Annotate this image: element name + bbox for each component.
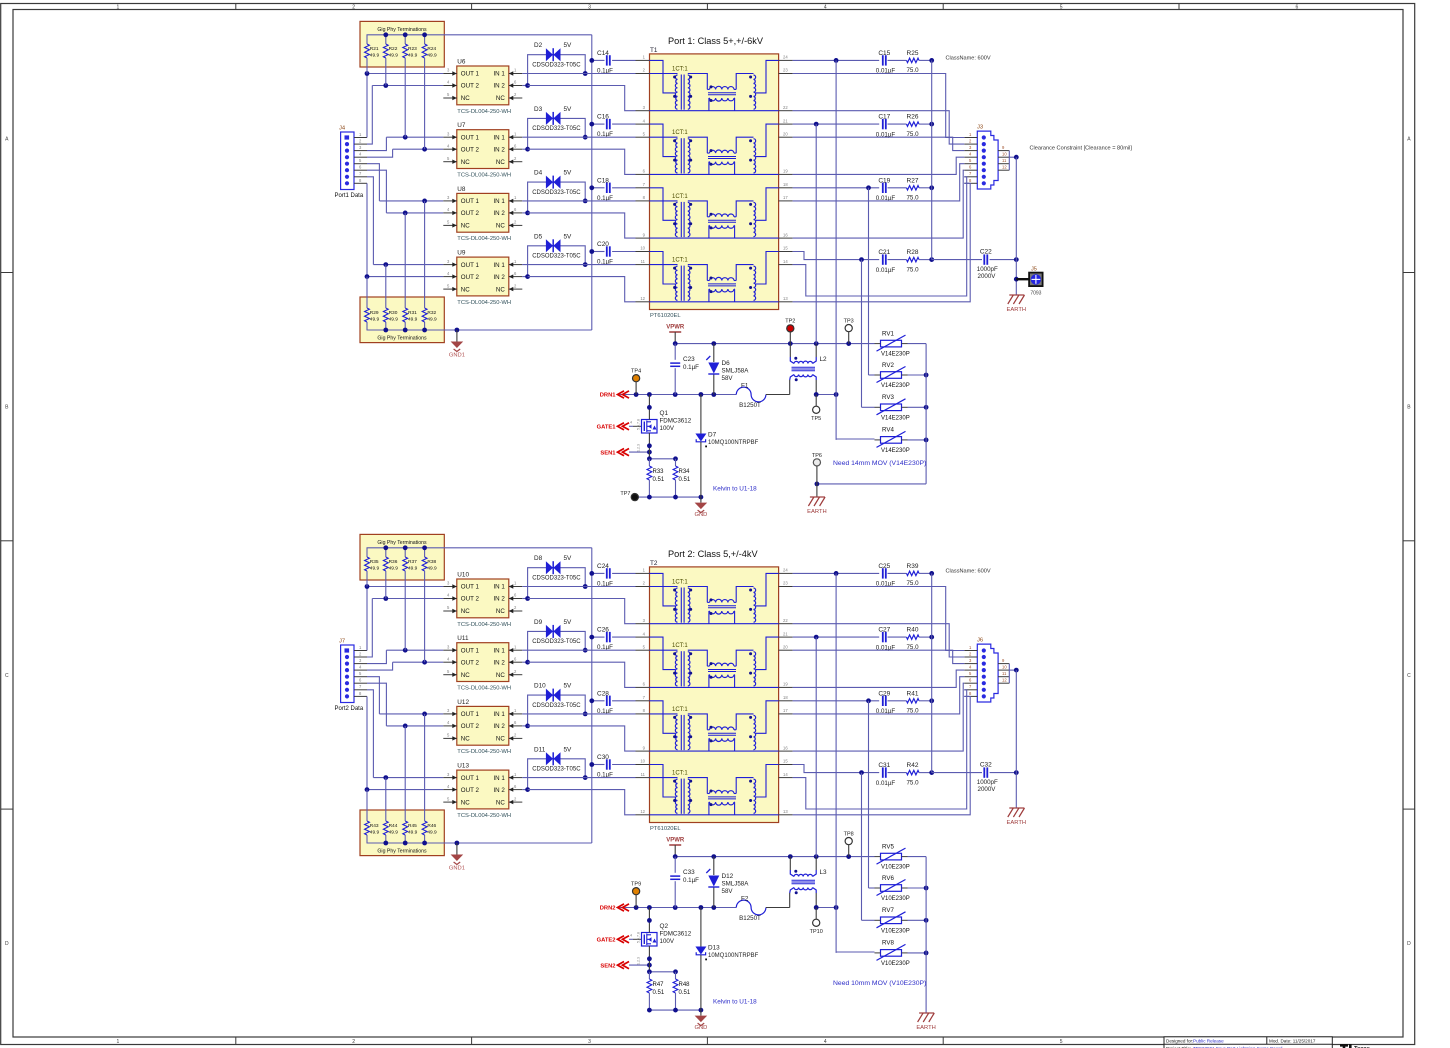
svg-text:C23: C23: [683, 356, 695, 363]
wire: [919, 700, 932, 702]
capacitor C16: [606, 119, 608, 129]
ic U7: [457, 130, 509, 169]
svg-text:TP9: TP9: [631, 881, 641, 887]
svg-text:D7: D7: [708, 432, 717, 439]
svg-text:2: 2: [352, 1039, 355, 1045]
wire: [919, 259, 932, 261]
svg-text:IN 2: IN 2: [493, 596, 505, 603]
wire: [372, 598, 443, 600]
svg-text:EARTH: EARTH: [1007, 820, 1027, 826]
svg-text:0.51: 0.51: [679, 990, 691, 996]
svg-text:ClassName: 600V: ClassName: 600V: [946, 569, 991, 575]
svg-text:Port1 Data: Port1 Data: [335, 193, 364, 199]
wire: [869, 887, 875, 889]
wire: [648, 908, 650, 933]
wire: [816, 907, 836, 909]
wire: [367, 683, 386, 726]
varistor RV1: [881, 340, 902, 347]
wire vertical v4: [861, 260, 863, 408]
svg-text:OUT 2: OUT 2: [461, 146, 480, 153]
wire: [888, 572, 907, 574]
earth: [810, 496, 825, 498]
svg-text:IN 2: IN 2: [493, 274, 505, 281]
resistor R46: [424, 835, 426, 843]
resistor R28: [907, 257, 920, 261]
svg-text:Port 1: Class 5+,+/-6kV: Port 1: Class 5+,+/-6kV: [668, 36, 764, 46]
diode D7: [700, 395, 702, 434]
wire: [902, 919, 908, 921]
svg-text:12: 12: [1002, 678, 1007, 683]
tvs diode D4: [546, 176, 553, 189]
resistor R26: [907, 122, 920, 126]
wire vertical v3: [868, 188, 870, 375]
wire: [367, 137, 386, 150]
svg-text:4: 4: [630, 421, 632, 425]
svg-text:V10E230P: V10E230P: [881, 961, 910, 967]
svg-text:R25: R25: [907, 50, 919, 57]
svg-text:R31: R31: [408, 310, 417, 316]
wire: [836, 438, 874, 440]
svg-text:C28: C28: [597, 690, 609, 697]
diode D13: [700, 908, 702, 947]
resistor R31: [404, 322, 406, 330]
svg-text:49.9: 49.9: [408, 830, 418, 836]
svg-text:Clearance Constraint [Clearanc: Clearance Constraint [Clearance = 80mil]: [1030, 146, 1133, 152]
svg-text:C18: C18: [597, 177, 609, 184]
test point TP3: [845, 325, 852, 332]
svg-text:5V: 5V: [564, 683, 573, 690]
svg-text:16: 16: [783, 232, 788, 237]
wire: [367, 662, 393, 670]
svg-text:R36: R36: [389, 559, 398, 565]
varistor RV4: [881, 437, 902, 444]
ground GND1: [455, 841, 460, 846]
wire: [612, 251, 635, 253]
svg-text:CDSOD323-T05C: CDSOD323-T05C: [532, 126, 581, 132]
svg-text:T1: T1: [650, 47, 658, 54]
wire: [528, 213, 636, 238]
svg-text:TP5: TP5: [811, 416, 821, 422]
svg-text:R28: R28: [907, 249, 919, 256]
svg-text:NC: NC: [496, 223, 505, 230]
svg-text:D11: D11: [534, 746, 546, 753]
earth: [919, 1012, 934, 1014]
svg-text:NC: NC: [496, 286, 505, 293]
wire: [528, 790, 636, 815]
svg-text:49.9: 49.9: [389, 317, 399, 323]
svg-text:6: 6: [1296, 5, 1299, 11]
resistor R41: [907, 699, 920, 703]
svg-text:1: 1: [117, 1039, 120, 1045]
svg-text:2000V: 2000V: [978, 273, 997, 280]
ic U9: [457, 257, 509, 296]
svg-text:D9: D9: [534, 619, 543, 626]
wire: [522, 148, 527, 150]
wire vertical v2: [815, 637, 817, 857]
wire rail B: [618, 907, 737, 909]
ic U13: [457, 770, 509, 809]
resistor network box (top): [360, 21, 444, 67]
wire vertical v3: [868, 701, 870, 888]
svg-text:GATE2: GATE2: [597, 938, 616, 944]
svg-text:R48: R48: [679, 982, 691, 988]
svg-text:D8: D8: [534, 555, 543, 562]
fuse F2: [736, 900, 766, 915]
svg-text:IN 1: IN 1: [493, 134, 505, 141]
TI logo: [1340, 1044, 1348, 1048]
resistor R47: [648, 972, 650, 979]
wire: [386, 725, 443, 727]
transformer pins: [636, 700, 650, 702]
wire output bus: [931, 60, 933, 259]
svg-text:49.9: 49.9: [427, 317, 437, 323]
svg-text:IN 2: IN 2: [493, 210, 505, 217]
wire: [522, 586, 585, 588]
wire: [793, 187, 880, 189]
wire: [367, 599, 372, 658]
port GATE2: [618, 936, 625, 943]
wire: [649, 458, 675, 460]
svg-text:Port 2: Class 5,+/-4kV: Port 2: Class 5,+/-4kV: [668, 549, 758, 559]
wire: [629, 964, 649, 966]
wire: [585, 73, 635, 75]
svg-text:2: 2: [352, 5, 355, 11]
resistor R25: [907, 58, 920, 62]
transformer pins: [636, 572, 650, 574]
svg-text:3: 3: [588, 1039, 591, 1045]
resistor R44: [385, 835, 387, 843]
svg-text:11: 11: [641, 259, 646, 264]
test point TP6: [813, 459, 820, 466]
wire: [793, 111, 965, 144]
wire: [522, 264, 585, 266]
wire: [648, 433, 650, 459]
svg-text:D3: D3: [534, 106, 543, 113]
svg-text:R39: R39: [907, 563, 919, 570]
svg-text:CDSOD323-T05C: CDSOD323-T05C: [532, 639, 581, 645]
svg-text:7093: 7093: [1030, 291, 1041, 297]
transformer T2: [650, 567, 779, 823]
svg-text:49.9: 49.9: [427, 566, 437, 572]
svg-text:49.9: 49.9: [408, 317, 418, 323]
wire: [629, 451, 649, 453]
svg-text:10: 10: [1002, 665, 1007, 670]
capacitor C27: [882, 632, 884, 642]
wire: [649, 971, 675, 973]
tvs diode D11: [546, 752, 553, 765]
svg-text:V14E230P: V14E230P: [881, 448, 910, 454]
wire: [919, 187, 932, 189]
ground GND1: [455, 328, 460, 333]
svg-text:C22: C22: [980, 248, 992, 255]
svg-text:21: 21: [783, 631, 788, 636]
wire: [522, 136, 585, 138]
svg-text:V14E230P: V14E230P: [881, 383, 910, 389]
resistor network box (top): [360, 534, 444, 580]
svg-text:5: 5: [1060, 5, 1063, 11]
wire: [592, 700, 605, 702]
capacitor C29: [882, 696, 884, 706]
wire: [379, 200, 443, 202]
svg-text:V10E230P: V10E230P: [881, 865, 910, 871]
wire bottom rail: [649, 1009, 701, 1011]
svg-text:GND: GND: [694, 1025, 707, 1031]
svg-text:ClassName: 600V: ClassName: 600V: [946, 56, 991, 62]
wire: [862, 919, 875, 921]
svg-text:OUT 1: OUT 1: [461, 711, 480, 718]
svg-text:49.9: 49.9: [370, 830, 380, 836]
svg-text:49.9: 49.9: [427, 53, 437, 59]
wire: [367, 329, 592, 331]
wire: [393, 148, 444, 150]
svg-text:75.0: 75.0: [906, 779, 919, 786]
tvs diode D12: [713, 857, 715, 875]
capacitor C20: [606, 246, 608, 256]
resistor R34: [675, 459, 677, 466]
svg-text:IN 1: IN 1: [493, 711, 505, 718]
svg-text:24: 24: [783, 55, 788, 60]
svg-text:L3: L3: [820, 869, 828, 876]
wire: [522, 212, 527, 214]
svg-text:TP6: TP6: [812, 453, 822, 459]
wire: [367, 170, 386, 213]
svg-text:24: 24: [783, 568, 788, 573]
wire: [522, 276, 527, 278]
wire: [522, 598, 527, 600]
resistor R35: [366, 548, 368, 557]
svg-text:SMLJ58A: SMLJ58A: [722, 881, 750, 888]
capacitor C30: [606, 759, 608, 769]
svg-text:RV3: RV3: [882, 394, 894, 401]
wire: [793, 765, 880, 773]
svg-text:3: 3: [588, 5, 591, 11]
svg-text:RV5: RV5: [882, 843, 894, 850]
capacitor C18: [606, 183, 608, 193]
wire: [592, 572, 605, 574]
wire: [592, 59, 605, 61]
svg-text:DRN1: DRN1: [600, 393, 617, 399]
svg-text:GND: GND: [694, 512, 707, 518]
svg-text:EARTH: EARTH: [1007, 307, 1027, 313]
resistor R38: [424, 548, 426, 557]
ic U11: [457, 643, 509, 682]
svg-text:OUT 1: OUT 1: [461, 71, 480, 78]
wire: [793, 59, 880, 61]
wire: [367, 149, 393, 157]
svg-text:R45: R45: [408, 823, 417, 829]
svg-text:R40: R40: [907, 627, 919, 634]
connector J3: [977, 131, 998, 189]
svg-text:Kelvin to U1-18: Kelvin to U1-18: [713, 999, 757, 1006]
capacitor C14: [606, 55, 608, 65]
svg-text:22: 22: [783, 105, 788, 110]
svg-text:58V: 58V: [722, 375, 734, 382]
svg-text:R22: R22: [389, 46, 398, 52]
wire: [902, 887, 908, 889]
svg-text:Need 10mm MOV (V10E230P): Need 10mm MOV (V10E230P): [833, 980, 926, 987]
svg-text:13: 13: [783, 809, 788, 814]
wire: [592, 636, 605, 638]
svg-text:100V: 100V: [660, 938, 675, 945]
svg-text:TCS-DL004-250-WH: TCS-DL004-250-WH: [457, 109, 511, 115]
wire: [888, 187, 907, 189]
svg-text:D: D: [1407, 941, 1411, 947]
svg-text:D2: D2: [534, 42, 543, 49]
svg-text:NC: NC: [461, 286, 470, 293]
test point TP5: [813, 406, 820, 413]
wire: [793, 164, 965, 201]
svg-text:C15: C15: [878, 50, 890, 57]
connector J7: [341, 645, 354, 703]
svg-text:1000pF: 1000pF: [977, 779, 998, 786]
svg-text:C30: C30: [597, 754, 609, 761]
svg-text:C26: C26: [597, 627, 609, 634]
svg-text:1,2,3: 1,2,3: [637, 444, 641, 452]
wire: [902, 343, 908, 345]
ic U10: [457, 579, 509, 618]
svg-text:IN 1: IN 1: [493, 71, 505, 78]
svg-text:J4: J4: [339, 126, 346, 132]
svg-text:22: 22: [783, 618, 788, 623]
svg-text:Mod. Date: 11/25/2017: Mod. Date: 11/25/2017: [1269, 1039, 1316, 1044]
wire: [902, 952, 908, 954]
wire: [386, 212, 443, 214]
wire: [366, 74, 368, 138]
wire: [367, 547, 592, 549]
svg-text:1CT:1: 1CT:1: [672, 707, 688, 713]
svg-text:RV1: RV1: [882, 330, 894, 337]
svg-text:TCS-DL004-250-WH: TCS-DL004-250-WH: [457, 300, 511, 306]
svg-text:R44: R44: [389, 823, 398, 829]
wire: [902, 439, 908, 441]
capacitor C26: [606, 632, 608, 642]
resistor R32: [424, 322, 426, 330]
svg-text:49.9: 49.9: [370, 317, 380, 323]
svg-text:14: 14: [783, 772, 788, 777]
svg-text:C19: C19: [878, 177, 890, 184]
transformer T1: [650, 54, 779, 310]
svg-text:R34: R34: [679, 469, 691, 475]
svg-text:5V: 5V: [564, 42, 573, 49]
wire: [522, 200, 585, 202]
svg-text:10: 10: [1002, 152, 1007, 157]
resistor R21: [366, 35, 368, 44]
svg-text:D10: D10: [534, 683, 546, 690]
test point TP8: [845, 838, 852, 845]
wire: [612, 187, 635, 189]
svg-text:18: 18: [783, 182, 788, 187]
svg-text:C25: C25: [878, 563, 890, 570]
wire: [902, 406, 908, 408]
svg-text:CDSOD323-T05C: CDSOD323-T05C: [532, 62, 581, 68]
wire: [367, 690, 373, 778]
wire: [888, 259, 907, 261]
resistor R22: [385, 35, 387, 44]
svg-text:5V: 5V: [564, 170, 573, 177]
vertical termination bus wire: [591, 548, 593, 843]
test point TP9: [633, 888, 640, 895]
svg-text:VPWR: VPWR: [666, 325, 685, 331]
wire bottom rail: [635, 496, 701, 498]
svg-text:49.9: 49.9: [389, 830, 399, 836]
svg-text:0.1µF: 0.1µF: [683, 877, 699, 884]
wire vertical v4: [861, 773, 863, 921]
port SEN1: [618, 449, 625, 456]
svg-text:5: 5: [1060, 1039, 1063, 1045]
transformer pins: [636, 123, 650, 125]
svg-text:NC: NC: [461, 672, 470, 679]
svg-text:Designed for:: Designed for:: [1166, 1039, 1193, 1044]
wire: [793, 252, 880, 260]
svg-text:SEN1: SEN1: [600, 450, 616, 456]
svg-text:C20: C20: [597, 241, 609, 248]
svg-text:U12: U12: [457, 699, 469, 706]
capacitor C17: [882, 119, 884, 129]
capacitor C21: [882, 254, 884, 264]
svg-text:R21: R21: [370, 46, 379, 52]
resistor R39: [907, 571, 920, 575]
wire: [585, 713, 635, 715]
wire: [372, 85, 443, 87]
svg-text:IN 2: IN 2: [493, 659, 505, 666]
wire: [528, 149, 636, 174]
wire: [836, 951, 874, 953]
wire: [522, 713, 585, 715]
svg-text:Gig Phy Terminations: Gig Phy Terminations: [377, 27, 427, 33]
svg-text:1CT:1: 1CT:1: [672, 643, 688, 649]
svg-text:19: 19: [783, 682, 788, 687]
earth: [1009, 807, 1024, 809]
svg-text:C32: C32: [980, 761, 992, 768]
resistor R29: [366, 322, 368, 330]
wire: [367, 276, 443, 278]
wire vertical v2: [815, 124, 817, 344]
wire: [990, 259, 1017, 261]
svg-text:IN 2: IN 2: [493, 146, 505, 153]
ground GND: [700, 1010, 702, 1016]
wire: [373, 264, 443, 266]
svg-text:R33: R33: [653, 469, 665, 475]
inductor L2: [789, 344, 791, 357]
transformer pins: [636, 764, 650, 766]
svg-text:0.01µF: 0.01µF: [876, 267, 896, 274]
svg-text:CDSOD323-T05C: CDSOD323-T05C: [532, 190, 581, 196]
svg-text:C31: C31: [878, 762, 890, 769]
svg-text:OUT 1: OUT 1: [461, 775, 480, 782]
transformer pins: [636, 187, 650, 189]
svg-text:1CT:1: 1CT:1: [672, 66, 688, 72]
wire: [793, 650, 965, 663]
svg-text:TCS-DL004-250-WH: TCS-DL004-250-WH: [457, 173, 511, 179]
svg-text:U7: U7: [457, 122, 466, 129]
svg-text:C21: C21: [878, 249, 890, 256]
svg-text:U8: U8: [457, 186, 466, 193]
wire: [367, 677, 379, 714]
wire rail A: [675, 343, 874, 345]
capacitor C28: [606, 696, 608, 706]
tvs diode D10: [546, 689, 553, 702]
svg-text:IN 1: IN 1: [493, 584, 505, 591]
wire: [793, 683, 965, 751]
svg-text:RV2: RV2: [882, 362, 894, 369]
wire: [612, 700, 635, 702]
svg-text:NC: NC: [461, 608, 470, 615]
port DRN1: [618, 391, 625, 398]
wire: [612, 123, 635, 125]
svg-text:C: C: [1407, 673, 1411, 679]
svg-text:23: 23: [783, 581, 788, 586]
wire: [793, 624, 965, 657]
